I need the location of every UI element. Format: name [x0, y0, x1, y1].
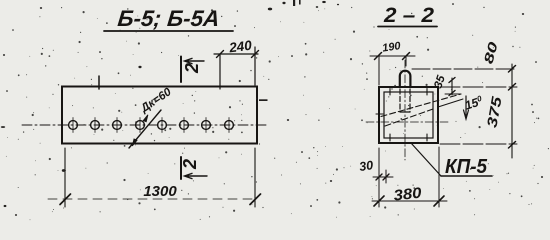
- dimension 380 tick left: [374, 196, 384, 206]
- corner bar tick top-left: [389, 89, 391, 96]
- dimension 190 extension right: [405, 56, 407, 66]
- hole circle 2: [91, 118, 100, 133]
- section mark 2 top line: [180, 57, 182, 83]
- dimension 30 tick right: [383, 174, 389, 180]
- dimension 190 extension left: [378, 56, 380, 85]
- corner bar tick bottom-left: [389, 134, 391, 141]
- hole circle 4: [136, 118, 145, 133]
- dimension 30 stub extension: [385, 170, 387, 183]
- dimension 1300 extension line left: [64, 148, 66, 207]
- loop stub left (plan): [98, 76, 100, 89]
- dimension 1300 extension line right: [254, 148, 256, 207]
- liner label leader: [411, 143, 441, 176]
- dimension 240 line: [214, 53, 258, 55]
- lifting hook loop: [400, 71, 411, 87]
- section horizontal center line: [366, 121, 450, 123]
- hidden diagonal bar upper: [381, 94, 461, 117]
- right dim tick at bottom of section: [509, 142, 516, 149]
- svg-text:30: 30: [358, 158, 374, 174]
- beam outline rectangle: [62, 87, 257, 144]
- dimension 190 tick left: [375, 53, 382, 60]
- dimension 1300 tick right: [250, 194, 261, 205]
- dimension 30 tick left: [376, 174, 382, 180]
- dimension 240 extension line right: [254, 47, 256, 85]
- top level extension line (hook top): [412, 68, 517, 70]
- svg-text:2: 2: [182, 63, 202, 74]
- corner bar tick top-right: [426, 89, 428, 96]
- extension line top of section: [440, 86, 517, 88]
- hole circle 1: [69, 118, 78, 133]
- liner label КП-5 underline: [441, 175, 492, 177]
- section vertical center line: [404, 60, 406, 160]
- hook legs hidden (dashed): [400, 89, 410, 112]
- section mark 2 bottom arrow: [185, 173, 208, 178]
- leader arrowhead upper: [143, 115, 148, 122]
- svg-text:2 – 2: 2 – 2: [383, 4, 434, 27]
- chamfer down arrow: [464, 96, 469, 119]
- dimension 30 line: [373, 176, 393, 178]
- dimension 1300 tick left: [60, 194, 71, 205]
- dimension 240 tick left: [217, 51, 224, 58]
- dimension 35 line: [451, 78, 453, 95]
- dimension 35 tick top: [449, 78, 455, 83]
- side bar tick left: [376, 113, 383, 115]
- svg-text:2: 2: [180, 159, 200, 170]
- extension line bottom of section: [440, 143, 517, 145]
- leader arrowhead lower: [132, 139, 137, 146]
- hole circle 3: [113, 118, 122, 133]
- title 2-2 underline: [378, 26, 437, 28]
- right dim tick at hook level: [509, 66, 516, 73]
- section mark 2 top arrow: [185, 58, 205, 63]
- dimension 380 line: [372, 200, 447, 202]
- hole circle 7: [202, 118, 211, 133]
- section outer square: [379, 87, 438, 143]
- right dimension line vertical: [511, 64, 513, 158]
- dimension 240 tick right: [252, 51, 259, 58]
- corner bar tick bottom-right: [426, 134, 428, 141]
- svg-text:240: 240: [227, 38, 253, 56]
- chamfer leader line: [438, 99, 463, 107]
- right dim tick at top of section: [509, 84, 516, 91]
- hidden diagonal bar lower: [385, 109, 433, 126]
- hole circle 6: [180, 118, 189, 133]
- hole circle 5: [158, 118, 167, 133]
- hook feet: [400, 111, 410, 113]
- svg-text:КП-5: КП-5: [445, 156, 488, 178]
- dimension 380 extension right: [438, 147, 440, 207]
- dimension 35 extension: [445, 93, 461, 95]
- title underline: [104, 30, 233, 32]
- dimension 380 tick right: [434, 196, 444, 206]
- dimension 190 line: [370, 55, 415, 57]
- svg-text:1300: 1300: [143, 183, 177, 200]
- section inner square: [384, 92, 433, 138]
- dimension 240 extension line left / loop stub right: [219, 54, 221, 89]
- section mark 2 bottom line: [180, 157, 182, 179]
- longitudinal center line: [22, 124, 268, 126]
- svg-text:Б-5; Б-5А: Б-5; Б-5А: [116, 6, 220, 31]
- dimension 380 extension left: [378, 148, 380, 207]
- dimension 1300 line: [48, 198, 257, 200]
- dimension 190 tick right: [403, 53, 410, 60]
- hole circle 8: [225, 118, 234, 133]
- hole diameter leader line: [129, 110, 161, 148]
- svg-text:380: 380: [393, 185, 423, 205]
- dimension 35 tick bottom: [449, 91, 455, 96]
